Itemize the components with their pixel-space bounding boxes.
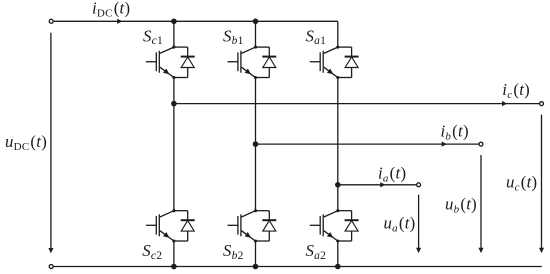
svg-text:ub(t): ub(t) — [445, 195, 477, 216]
antiparallel diode of S_c1 — [174, 47, 195, 77]
wire: leg a upper segment (rail to S_a1 collector) — [337, 21, 339, 47]
terminal: phase c output (open circle) — [540, 102, 544, 106]
junction: bottom rail / leg a — [335, 264, 341, 270]
terminal: DC- input (open circle, bottom left) — [49, 265, 53, 269]
transistor S_a1 (IGBT) — [310, 46, 340, 79]
wire: leg b upper segment (rail to S_b1 collector) — [255, 21, 257, 47]
svg-text:Sb1: Sb1 — [223, 26, 244, 47]
antiparallel diode of S_b1 — [256, 47, 277, 77]
svg-text:ia(t): ia(t) — [378, 163, 406, 184]
wire: leg c upper segment (rail to S_c1 collector) — [173, 21, 175, 47]
junction: bottom rail / leg c — [171, 264, 177, 270]
transistor S_c1 (IGBT) — [146, 46, 176, 79]
svg-text:ic(t): ic(t) — [502, 80, 530, 101]
transistor S_a2 (IGBT) — [310, 209, 340, 242]
wire: phase b output — [256, 142, 479, 147]
svg-text:Sa1: Sa1 — [306, 26, 327, 47]
wire: leg c lower segment (S_c2 emitter to bottom rail) — [173, 241, 175, 267]
wire: phase a output — [338, 182, 416, 187]
terminal: phase a output (open circle) — [417, 183, 421, 187]
svg-text:ua(t): ua(t) — [384, 214, 416, 235]
wire: leg b middle segment (S_b1 emitter to S_b2 collector) — [255, 78, 257, 211]
terminal: phase b output (open circle) — [479, 142, 483, 146]
junction: bottom rail / leg b — [253, 264, 259, 270]
antiparallel diode of S_b2 — [256, 211, 277, 241]
wire: leg b lower segment (S_b2 emitter to bottom rail) — [255, 241, 257, 267]
wire: leg c middle segment (S_c1 emitter to S_c2 collector) — [173, 78, 175, 211]
wire: leg a middle segment (S_a1 emitter to S_a2 collector) — [337, 78, 339, 211]
antiparallel diode of S_a1 — [338, 47, 359, 77]
voltage arrow u_a (points down) — [416, 195, 421, 253]
transistor S_b2 (IGBT) — [228, 209, 258, 242]
wire: top DC rail — [54, 20, 338, 22]
svg-text:uc(t): uc(t) — [506, 173, 537, 194]
svg-text:Sc1: Sc1 — [143, 26, 163, 47]
junction: node a on leg a — [335, 182, 341, 188]
voltage arrow u_b (points down) — [478, 155, 483, 253]
junction: top rail / leg c — [171, 19, 177, 25]
wire: bottom DC rail — [54, 266, 542, 268]
antiparallel diode of S_c2 — [174, 211, 195, 241]
terminal: DC+ input (open circle, top left) — [49, 19, 53, 23]
svg-text:Sc2: Sc2 — [142, 241, 162, 262]
svg-text:Sb2: Sb2 — [223, 241, 244, 262]
transistor S_c2 (IGBT) — [146, 209, 176, 242]
junction: node c on leg c — [171, 101, 177, 107]
junction: node b on leg b — [253, 141, 259, 147]
transistor S_b1 (IGBT) — [228, 46, 258, 79]
arrow: i_DC direction on top rail — [117, 19, 122, 24]
wire: leg a lower segment (S_a2 emitter to bottom rail) — [337, 241, 339, 267]
voltage arrow u_DC (points down along left side) — [48, 33, 53, 254]
voltage arrow u_c (points down) — [539, 115, 544, 254]
svg-text:Sa2: Sa2 — [306, 241, 327, 262]
junction: top rail / leg b — [253, 19, 259, 25]
svg-text:ib(t): ib(t) — [441, 122, 469, 143]
svg-text:iDC(t): iDC(t) — [92, 0, 130, 20]
wire: phase c output — [174, 101, 539, 106]
antiparallel diode of S_a2 — [338, 211, 359, 241]
svg-text:uDC(t): uDC(t) — [5, 132, 47, 153]
